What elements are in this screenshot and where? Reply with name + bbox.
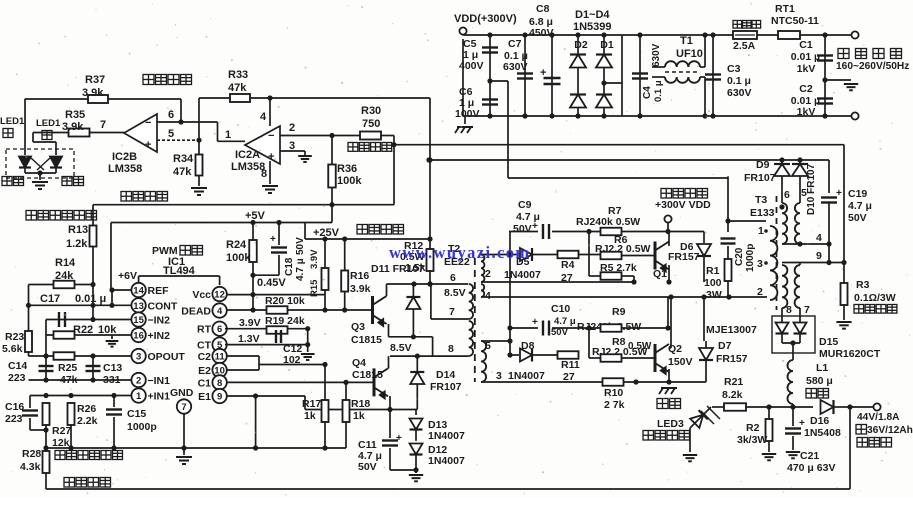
- svg-text:DEAD: DEAD: [181, 306, 211, 318]
- svg-text:14: 14: [133, 286, 144, 297]
- svg-text:VDD(+300V): VDD(+300V): [454, 13, 517, 25]
- svg-text:0.01 μ: 0.01 μ: [75, 293, 106, 305]
- svg-text:C19: C19: [848, 188, 867, 200]
- svg-text:C8: C8: [536, 3, 550, 15]
- svg-text:8.5V: 8.5V: [390, 342, 412, 354]
- svg-text:R24: R24: [226, 239, 247, 251]
- svg-text:C3: C3: [727, 63, 741, 75]
- svg-text:1N5408: 1N5408: [804, 427, 841, 439]
- svg-text:+: +: [836, 188, 842, 199]
- svg-text:FR107: FR107: [744, 172, 776, 184]
- svg-text:+IN2: +IN2: [148, 330, 171, 342]
- svg-text:+: +: [268, 151, 274, 163]
- svg-text:R10: R10: [604, 387, 623, 399]
- svg-text:3k/3W: 3k/3W: [737, 434, 767, 446]
- svg-text:R22: R22: [73, 324, 93, 336]
- svg-text:C2: C2: [799, 83, 813, 95]
- svg-text:MJE13007: MJE13007: [706, 324, 757, 336]
- svg-text:0.5W: 0.5W: [628, 341, 652, 352]
- svg-text:450V: 450V: [529, 27, 554, 39]
- svg-text:1k: 1k: [304, 410, 316, 422]
- svg-text:6: 6: [784, 189, 790, 201]
- svg-text:5: 5: [168, 128, 174, 140]
- svg-text:100V: 100V: [455, 108, 480, 120]
- svg-text:R25: R25: [58, 362, 77, 374]
- svg-text:630V: 630V: [503, 61, 528, 73]
- svg-text:0.45V: 0.45V: [257, 277, 286, 289]
- svg-text:RT1: RT1: [775, 3, 795, 15]
- svg-text:R3: R3: [856, 279, 870, 291]
- svg-text:E2: E2: [198, 365, 211, 377]
- svg-text:R18: R18: [351, 398, 370, 410]
- svg-text:1kV: 1kV: [797, 106, 816, 118]
- svg-text:1kV: 1kV: [797, 63, 816, 75]
- svg-text:R36: R36: [337, 163, 357, 175]
- svg-text:R33: R33: [228, 69, 248, 81]
- svg-text:4: 4: [816, 232, 822, 244]
- svg-text:1.2k: 1.2k: [66, 238, 88, 250]
- svg-text:7: 7: [181, 402, 186, 413]
- svg-text:100k: 100k: [337, 175, 362, 187]
- svg-text:4.7 μ: 4.7 μ: [848, 200, 872, 212]
- svg-text:+5V: +5V: [245, 210, 266, 222]
- svg-text:C10: C10: [551, 303, 570, 315]
- svg-text:47k: 47k: [228, 82, 247, 94]
- svg-text:16: 16: [133, 331, 144, 342]
- svg-text:R4: R4: [561, 259, 575, 271]
- svg-text:C13: C13: [103, 362, 122, 374]
- svg-text:2: 2: [757, 286, 763, 298]
- svg-text:D7: D7: [718, 340, 732, 352]
- svg-text:1: 1: [225, 129, 231, 141]
- svg-text:400V: 400V: [459, 60, 484, 72]
- svg-text:R16: R16: [350, 270, 369, 282]
- svg-text:7: 7: [449, 306, 455, 318]
- svg-text:4.7 μ: 4.7 μ: [554, 316, 576, 327]
- svg-text:R35: R35: [65, 109, 85, 121]
- svg-text:D14: D14: [436, 369, 455, 381]
- svg-text:5: 5: [801, 187, 807, 199]
- svg-text:D9: D9: [756, 159, 770, 171]
- svg-text:50V: 50V: [848, 212, 867, 224]
- svg-text:C1815: C1815: [352, 369, 383, 381]
- svg-text:2: 2: [485, 268, 491, 280]
- svg-text:−: −: [268, 130, 274, 142]
- svg-text:Q2: Q2: [668, 343, 682, 355]
- svg-text:+IN1: +IN1: [148, 391, 171, 403]
- svg-text:27: 27: [563, 371, 575, 383]
- svg-text:R30: R30: [361, 105, 381, 117]
- svg-text:L1: L1: [816, 362, 828, 374]
- svg-text:C14: C14: [8, 360, 27, 372]
- svg-text:1N4007: 1N4007: [428, 430, 465, 442]
- svg-text:D10 FR107: D10 FR107: [806, 163, 817, 215]
- svg-text:C20: C20: [734, 247, 745, 266]
- svg-text:MUR1620CT: MUR1620CT: [819, 348, 881, 360]
- svg-text:Q3: Q3: [351, 321, 365, 333]
- svg-text:+: +: [540, 67, 546, 79]
- svg-text:C9: C9: [518, 199, 532, 211]
- svg-text:2: 2: [289, 122, 295, 134]
- svg-text:47k: 47k: [173, 166, 192, 178]
- svg-text:R26: R26: [77, 403, 96, 415]
- svg-text:D2: D2: [574, 39, 588, 51]
- svg-text:LED1: LED1: [36, 118, 61, 129]
- svg-text:100k: 100k: [226, 252, 251, 264]
- svg-text:4: 4: [260, 111, 267, 123]
- svg-text:7: 7: [804, 304, 810, 316]
- svg-text:+: +: [532, 317, 538, 328]
- svg-text:R9: R9: [612, 306, 626, 318]
- svg-text:36V/12Ah: 36V/12Ah: [867, 425, 913, 436]
- svg-text:0.1Ω/3W: 0.1Ω/3W: [854, 292, 896, 304]
- svg-text:3.9V: 3.9V: [239, 317, 261, 329]
- svg-text:FR157: FR157: [716, 353, 748, 365]
- svg-text:8: 8: [261, 168, 267, 180]
- svg-text:Q4: Q4: [352, 357, 366, 369]
- svg-text:8.5V: 8.5V: [444, 287, 466, 299]
- svg-text:C7: C7: [508, 38, 522, 50]
- svg-text:5.6k: 5.6k: [2, 343, 23, 355]
- svg-text:6: 6: [168, 109, 174, 121]
- svg-text:470 μ 63V: 470 μ 63V: [787, 462, 835, 474]
- svg-text:OPOUT: OPOUT: [148, 351, 186, 363]
- svg-text:RT: RT: [197, 324, 212, 336]
- svg-text:3: 3: [757, 258, 763, 270]
- svg-text:44V/1.8A: 44V/1.8A: [857, 412, 900, 423]
- svg-text:0.1 μ: 0.1 μ: [727, 75, 751, 87]
- svg-text:8: 8: [217, 378, 222, 389]
- svg-text:1N4007: 1N4007: [428, 455, 465, 467]
- svg-text:T3: T3: [755, 194, 767, 206]
- svg-text:1N4007: 1N4007: [508, 370, 545, 382]
- svg-text:D1: D1: [600, 39, 614, 51]
- svg-text:3.9k: 3.9k: [350, 283, 371, 295]
- svg-text:C1: C1: [198, 377, 212, 389]
- svg-text:T1: T1: [680, 35, 693, 47]
- svg-text:1: 1: [136, 391, 142, 402]
- svg-text:160~260V/50Hz: 160~260V/50Hz: [836, 61, 909, 72]
- svg-text:R19 24k: R19 24k: [265, 315, 305, 327]
- svg-text:11: 11: [215, 352, 226, 363]
- svg-text:4.7 μ: 4.7 μ: [295, 258, 306, 281]
- svg-text:10k: 10k: [98, 324, 117, 336]
- svg-text:R11: R11: [561, 359, 580, 371]
- svg-text:D11 FR107: D11 FR107: [371, 263, 424, 275]
- svg-text:D6: D6: [680, 241, 694, 253]
- svg-text:580 μ: 580 μ: [806, 375, 833, 387]
- svg-text:E133: E133: [750, 207, 775, 219]
- svg-text:15: 15: [133, 315, 144, 326]
- svg-text:750: 750: [362, 118, 380, 130]
- svg-text:50V: 50V: [513, 223, 532, 235]
- svg-text:+: +: [270, 234, 276, 245]
- svg-text:150V: 150V: [668, 356, 693, 368]
- svg-text:R37: R37: [85, 74, 105, 86]
- svg-text:3: 3: [496, 370, 502, 382]
- svg-text:R34: R34: [173, 153, 194, 165]
- svg-text:LM358: LM358: [108, 163, 142, 175]
- svg-text:R20 10k: R20 10k: [265, 295, 305, 307]
- svg-text:R13: R13: [68, 224, 88, 236]
- svg-text:R7: R7: [608, 205, 622, 217]
- svg-text:REF: REF: [148, 285, 170, 297]
- svg-text:C16: C16: [5, 401, 24, 413]
- svg-text:R23: R23: [5, 331, 24, 343]
- svg-text:IC2A: IC2A: [235, 149, 260, 161]
- svg-text:C1: C1: [799, 39, 813, 51]
- svg-text:4: 4: [485, 290, 491, 302]
- svg-text:223: 223: [5, 413, 23, 425]
- svg-text:R21: R21: [724, 376, 743, 388]
- svg-text:D1~D4: D1~D4: [575, 9, 610, 21]
- svg-text:50V: 50V: [295, 237, 306, 255]
- svg-text:4: 4: [217, 306, 223, 317]
- svg-text:NTC50-11: NTC50-11: [771, 15, 819, 27]
- svg-text:C1815: C1815: [351, 334, 382, 346]
- svg-text:E1: E1: [198, 391, 211, 403]
- svg-text:4.7 μ: 4.7 μ: [516, 211, 540, 223]
- svg-text:0.1 μ: 0.1 μ: [653, 80, 664, 102]
- svg-text:1: 1: [758, 225, 764, 237]
- svg-text:CONT: CONT: [148, 300, 178, 312]
- svg-text:C21: C21: [800, 450, 819, 462]
- svg-text:7: 7: [100, 119, 106, 131]
- svg-text:R15: R15: [309, 279, 320, 297]
- svg-text:LED1: LED1: [0, 116, 25, 127]
- svg-text:6: 6: [217, 324, 222, 335]
- svg-text:9: 9: [816, 250, 822, 262]
- svg-text:3W: 3W: [706, 289, 722, 301]
- svg-text:+: +: [396, 433, 402, 444]
- svg-text:+6V: +6V: [118, 270, 137, 282]
- svg-text:0.01: 0.01: [791, 51, 812, 63]
- svg-text:9: 9: [217, 392, 222, 403]
- svg-text:3: 3: [136, 352, 141, 363]
- svg-text:4.3k: 4.3k: [20, 461, 41, 473]
- svg-text:8: 8: [448, 343, 454, 355]
- svg-text:24k: 24k: [55, 270, 74, 282]
- svg-text:630V: 630V: [651, 43, 662, 67]
- svg-text:CT: CT: [197, 340, 212, 352]
- svg-text:630V: 630V: [727, 87, 752, 99]
- svg-text:C4: C4: [642, 86, 653, 99]
- svg-text:+300V VDD: +300V VDD: [655, 199, 711, 211]
- svg-text:C17: C17: [40, 293, 60, 305]
- svg-text:+: +: [799, 418, 805, 429]
- svg-text:D15: D15: [819, 336, 838, 348]
- svg-text:Q1: Q1: [653, 268, 667, 280]
- svg-text:13: 13: [133, 301, 144, 312]
- svg-text:R14: R14: [55, 257, 76, 269]
- svg-text:C15: C15: [127, 408, 146, 420]
- svg-text:GND: GND: [170, 387, 194, 399]
- svg-text:C18: C18: [284, 257, 295, 276]
- svg-text:IC2B: IC2B: [112, 151, 137, 163]
- svg-text:3.9k: 3.9k: [82, 87, 104, 99]
- svg-text:R28: R28: [22, 448, 41, 460]
- svg-text:R27: R27: [52, 425, 71, 437]
- svg-text:1k: 1k: [353, 410, 365, 422]
- svg-text:−IN2: −IN2: [148, 315, 171, 327]
- svg-text:8.2k: 8.2k: [722, 389, 743, 401]
- svg-text:−IN1: −IN1: [148, 375, 171, 387]
- svg-text:1N5399: 1N5399: [573, 21, 612, 33]
- svg-text:R17: R17: [302, 398, 321, 410]
- svg-text:223: 223: [8, 372, 26, 384]
- svg-text:μ: μ: [814, 52, 820, 63]
- svg-text:27: 27: [561, 272, 573, 284]
- svg-text:RJ240k 0.5W: RJ240k 0.5W: [576, 216, 640, 228]
- svg-text:UF10: UF10: [676, 48, 703, 60]
- svg-text:C2: C2: [198, 351, 212, 363]
- svg-text:2.2k: 2.2k: [77, 415, 98, 427]
- svg-text:100: 100: [704, 277, 722, 289]
- svg-text:8: 8: [786, 304, 792, 316]
- svg-text:FR107: FR107: [430, 381, 462, 393]
- svg-text:1000p: 1000p: [745, 244, 756, 272]
- svg-text:Vcc: Vcc: [192, 289, 211, 301]
- svg-text:3.9V: 3.9V: [309, 249, 320, 269]
- svg-text:www.wuyazi.com: www.wuyazi.com: [389, 243, 531, 262]
- svg-text:R2: R2: [746, 422, 760, 434]
- svg-text:2 7k: 2 7k: [604, 399, 625, 411]
- svg-text:R1: R1: [706, 265, 720, 277]
- svg-text:12: 12: [214, 290, 225, 301]
- svg-text:+: +: [145, 139, 151, 151]
- svg-text:D16: D16: [810, 415, 829, 427]
- svg-text:50V: 50V: [358, 461, 377, 473]
- svg-text:2.5A: 2.5A: [733, 40, 756, 52]
- svg-text:3.9k: 3.9k: [62, 121, 84, 133]
- svg-text:1000p: 1000p: [127, 421, 157, 433]
- svg-text:1.3V: 1.3V: [238, 333, 260, 345]
- svg-text:2: 2: [136, 376, 141, 387]
- svg-text:−: −: [145, 117, 151, 129]
- svg-text:6: 6: [450, 272, 456, 284]
- svg-text:LED3: LED3: [657, 418, 684, 430]
